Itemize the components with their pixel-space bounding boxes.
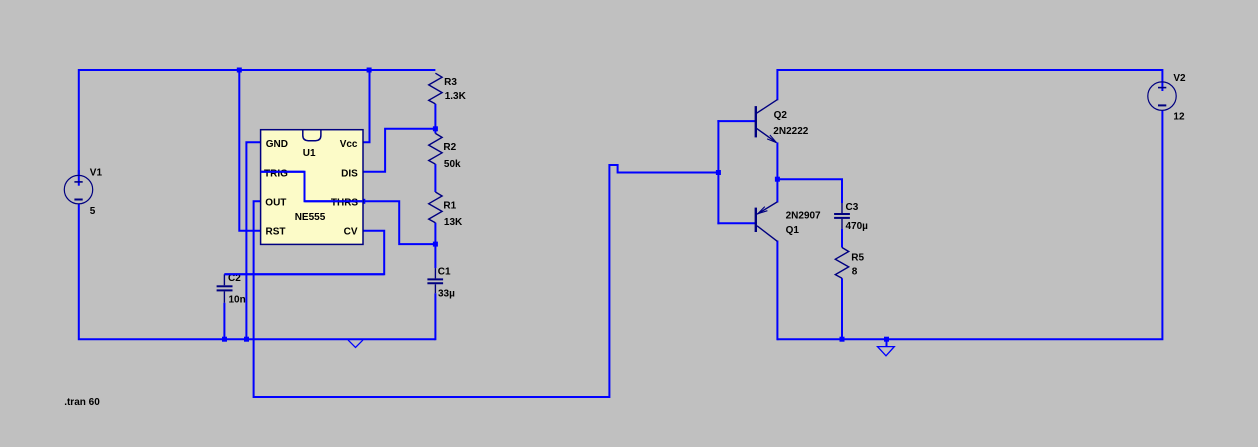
svg-text:8: 8 [852, 267, 858, 278]
svg-text:RST: RST [266, 227, 286, 238]
svg-text:5: 5 [90, 206, 96, 217]
svg-text:DIS: DIS [341, 168, 358, 179]
svg-text:13K: 13K [444, 217, 463, 228]
svg-text:.tran 60: .tran 60 [64, 397, 100, 408]
svg-text:12: 12 [1173, 112, 1185, 123]
svg-text:2N2907: 2N2907 [786, 211, 821, 222]
svg-text:2N2222: 2N2222 [773, 126, 808, 137]
svg-text:C1: C1 [438, 266, 451, 277]
svg-text:C3: C3 [846, 202, 859, 213]
svg-text:R1: R1 [443, 200, 456, 211]
svg-text:R5: R5 [851, 253, 864, 264]
svg-text:R3: R3 [444, 77, 457, 88]
svg-text:Q1: Q1 [786, 225, 800, 236]
svg-text:R2: R2 [443, 142, 456, 153]
svg-text:THRS: THRS [331, 198, 359, 209]
svg-text:NE555: NE555 [295, 212, 326, 223]
svg-text:V2: V2 [1173, 73, 1186, 84]
svg-text:470µ: 470µ [846, 221, 869, 232]
svg-text:1.3K: 1.3K [445, 91, 467, 102]
svg-text:U1: U1 [303, 148, 316, 159]
svg-text:CV: CV [344, 227, 358, 238]
svg-text:OUT: OUT [265, 198, 286, 209]
svg-text:GND: GND [266, 139, 288, 150]
svg-text:Q2: Q2 [774, 110, 788, 121]
svg-text:TRIG: TRIG [264, 168, 288, 179]
svg-text:Vcc: Vcc [340, 139, 358, 150]
svg-text:10n: 10n [229, 295, 246, 306]
svg-text:50k: 50k [444, 159, 461, 170]
svg-text:33µ: 33µ [438, 289, 455, 300]
svg-text:V1: V1 [90, 168, 103, 179]
